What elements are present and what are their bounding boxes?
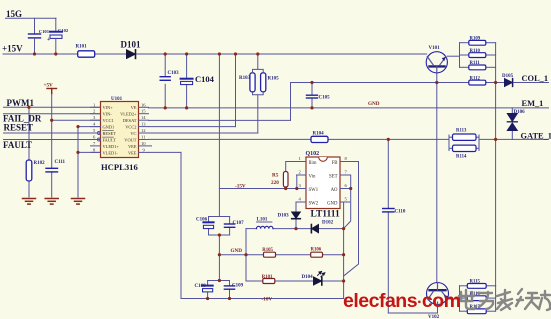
ground symbol at GND1 bracket [72,199,85,205]
wire D103 cathode to L101 run [295,220,297,229]
diode D101 [121,40,141,59]
capacitor C106 electrolytic [196,218,214,229]
U101 pin names right [120,105,137,155]
U101 pin stubs right [139,107,152,152]
wire VLED1- pin8 stub to ground bracket [78,151,101,153]
resistor R107 [262,275,275,284]
svg-text:12: 12 [141,128,146,133]
svg-text:RESET: RESET [4,123,34,133]
wire R102 bottom to ground [28,181,30,197]
wire +5V vertical feed and C111 top [51,93,53,168]
capacitor C101 [29,18,50,54]
diode D105 [502,74,514,86]
wire vertical x246 linking switch node / GND / R107 runs [245,229,247,281]
svg-text:GND: GND [231,248,243,254]
U101 pin numbers right 16-9 [141,102,146,152]
svg-text:DESAT: DESAT [123,118,137,123]
wire LT1111 pin6 AO [340,188,351,190]
svg-text:R106: R106 [311,248,322,253]
svg-text:R112: R112 [470,76,481,81]
wire R111 stubs [460,66,469,68]
wire +15V rail middle segment [95,53,127,55]
svg-text:R102: R102 [34,161,46,166]
IC U102 LT1111 body [306,151,341,220]
capacitor C102 electrolytic [47,18,69,54]
wire R115-R117 left bracket [459,286,461,311]
svg-text:D105: D105 [502,74,514,79]
capacitor C108 electrolytic [195,284,213,292]
wire C108/C109 top bridge [208,280,230,282]
wire D106 top leg [511,108,513,114]
resistor R5 vertical [271,172,288,188]
svg-text:VCC2: VCC2 [125,125,136,130]
resistor R112 [469,76,486,85]
wire C111 bottom to ground [51,172,53,197]
svg-text:R114: R114 [456,155,467,160]
svg-text:VLED1-: VLED1- [103,150,119,155]
svg-text:HCPL316: HCPL316 [101,162,138,172]
svg-text:C108: C108 [195,284,207,289]
resistor R113 [453,129,477,141]
wire GND net run y254.7 with R105 R106 [219,254,263,256]
diode D102 [311,221,333,233]
svg-text:VLED1+: VLED1+ [103,144,120,149]
svg-text:VC: VC [130,131,136,136]
wire R107/D104 run y281 [246,280,263,282]
wire R113/R114 left bracket [448,135,450,151]
resistor R114 [453,145,477,159]
wire +5V to pin3 VCC1 [52,119,101,121]
svg-text:13: 13 [141,122,146,127]
resistor R103 vertical [239,73,255,92]
capacitor C109 [224,284,243,290]
wire gate run R113/R114 to GATE_1 [479,138,549,140]
wire gate run R104 to R113/R114 [328,138,449,140]
wire R113 stubs [449,136,453,138]
wire LT1111 pin2 down to -15V run [297,175,306,189]
svg-text:C110: C110 [395,210,406,215]
svg-text:VEE: VEE [128,144,137,149]
wire R110 stubs [460,54,469,56]
op-amp U101 HCPL316 gate driver body [101,97,139,172]
svg-text:SET: SET [329,175,338,180]
wire VEE pin9 horizontal [149,151,182,153]
svg-text:EM_1: EM_1 [522,99,544,108]
svg-text:FB: FB [332,161,338,166]
svg-text:R101: R101 [76,45,88,50]
wire C106 legs [208,217,210,222]
wire LT1111 pin8 FB descent [305,156,307,158]
wire x219 tap C106 bridge to C108 bridge [218,235,220,281]
svg-text:VE: VE [131,105,137,110]
svg-text:C101: C101 [39,29,50,34]
U101 pin names left [103,105,120,155]
svg-text:-10V: -10V [262,297,273,303]
svg-text:Q102: Q102 [306,151,320,157]
svg-text:C107: C107 [233,221,245,226]
LED D104 [302,272,325,286]
wire bottom link to V102 [388,305,437,313]
U102 pin stubs left [297,162,307,203]
wire LT1111 pin4 to D103 anode [296,202,306,212]
resistor R115 [467,280,486,289]
wire LT1111 pin7 SET to AO node [340,175,351,189]
svg-text:+15V: +15V [2,44,23,54]
svg-text:COL_1: COL_1 [522,74,549,83]
power +5V symbol [44,83,57,94]
wire C105 legs x312 [311,83,313,95]
svg-text:VLED2+: VLED2+ [120,112,137,117]
wire right bracket x495.6 from R109 down to R115 bank [495,43,497,286]
wire C109 legs [229,281,231,286]
wire R114 stubs [449,147,453,149]
wire V101 collector chain down to V102 [436,73,438,282]
wire R115-R117 right bracket [495,286,497,311]
svg-text:Ilim: Ilim [309,161,317,166]
resistor R111 [469,61,486,70]
wire +15V rail right segment to V101 base [137,53,427,55]
watermark chinese characters [459,289,550,310]
wire R116 stubs [460,297,468,299]
resistor R116 [467,292,486,301]
svg-text:VEE: VEE [128,150,137,155]
capacitor C111 [46,160,66,172]
wire V101 emitter to resistor bank bracket [447,55,459,57]
svg-text:AO: AO [331,188,338,193]
resistor R110 [469,49,486,58]
wire PWM1 junction down to R102 [28,107,30,160]
capacitor C110 [383,209,406,215]
wire switch-node run L101/D102 y228.6 [246,228,257,230]
svg-text:FAULT: FAULT [3,140,32,150]
wire R113/R114 right bracket [478,135,480,151]
wire R115 stubs [460,285,468,287]
wire LT1111 pin1 to R5 top [286,162,306,172]
capacitor C107 [225,221,245,227]
wire FAIL_DR to pin2 [4,113,101,115]
resistor R101 [76,45,95,58]
wire DESAT pin14 horizontal [149,119,291,121]
svg-text:R101: R101 [262,275,273,280]
resistor R109 [469,37,486,46]
svg-text:V102: V102 [428,315,440,319]
diode D106 bidirectional TVS [507,110,525,131]
svg-text:Vin: Vin [309,175,317,180]
svg-text:R105: R105 [262,248,273,253]
U102 pin stubs right [340,162,350,203]
svg-text:C111: C111 [55,160,66,165]
wire C106/C107 top bridge [209,216,230,218]
svg-text:C104: C104 [195,74,215,84]
wire C110 bottom leg down [387,212,389,313]
svg-text:R111: R111 [470,61,481,66]
svg-text:V101: V101 [429,46,441,51]
wire SET/AO descent diagonal to switch node [344,189,351,229]
svg-text:R115: R115 [470,280,481,285]
svg-text:VIN+: VIN+ [103,105,114,110]
resistor R117 [467,305,486,314]
svg-text:-15V: -15V [235,184,246,190]
svg-text:R103: R103 [239,76,251,81]
capacitor C105 [307,95,331,100]
diode D103 [278,212,301,219]
U102 pin numbers [299,156,348,202]
svg-text:D101: D101 [121,40,141,50]
svg-text:FAULT: FAULT [103,137,117,142]
wire DESAT vertical riser x290.5 [290,83,292,121]
wire R5 bottom to -15V run [285,187,287,189]
wire DESAT top run to R112 [291,82,470,84]
wire -15V run from x219 vertical to LT1111 pin3 [219,188,306,190]
U102 pin names [309,161,319,207]
ground symbol at R102 [23,199,36,205]
svg-text:220: 220 [271,180,279,186]
wire +15V rail left segment [3,53,78,55]
wire RESET to pin5 [4,132,101,134]
svg-text:D104: D104 [302,275,314,280]
wire tap from rail to R103/R105 pair top [257,54,259,69]
U101 RESET FAULT overlines [103,130,114,132]
wire D105 cathode to COL_1 [514,82,549,84]
svg-text:14: 14 [141,115,146,120]
wire VCC2 vertical x235.5 from rail to pin13 [235,54,237,127]
wire -10V rail [181,298,344,300]
svg-text:C106: C106 [196,218,208,223]
wire R109 stubs [460,42,469,44]
svg-text:SW2: SW2 [309,202,319,207]
wire VEE vertical x181 down to -10V rail [180,152,182,298]
svg-text:GND: GND [327,202,338,207]
U101 pin stubs left [91,107,101,152]
wire VCC2 pin13 horizontal [149,126,236,128]
svg-text:GND: GND [368,101,380,107]
svg-text:C105: C105 [319,96,331,101]
svg-text:15: 15 [141,109,146,114]
capacitor C104 electrolytic [181,74,215,85]
svg-text:D103: D103 [278,214,290,219]
node 15G bus wire [6,17,57,19]
transistor V101 [426,46,447,73]
svg-text:11: 11 [141,135,146,140]
resistor R105 (bottom) [262,248,275,257]
wire VE/EM rail from pin16 to EM_1 [149,107,549,109]
wire GND1 pin4 stub to ground bracket [78,126,101,128]
wire ground bracket vertical x78 [77,127,79,197]
svg-text:R110: R110 [470,49,481,54]
svg-text:GATE_1: GATE_1 [521,132,551,141]
wire VC pin12 horizontal [149,132,258,134]
svg-text:R113: R113 [456,129,467,134]
svg-text:R104: R104 [313,132,325,137]
svg-text:VCC1: VCC1 [103,118,114,123]
svg-text:U101: U101 [111,97,123,102]
resistor R106 [311,248,323,258]
svg-text:GND1: GND1 [103,125,115,130]
resistor R104 [311,132,328,143]
wire vertical drop x219 from +15V rail to C106/C107 bridge [218,54,220,217]
wire D106 bottom leg [511,131,513,140]
svg-text:VOUT: VOUT [124,137,137,142]
wire C110 top leg from gate run [387,139,389,208]
svg-text:+5V: +5V [44,83,54,89]
wire C108 legs [207,281,209,286]
svg-text:C102: C102 [58,28,69,33]
svg-text:SW1: SW1 [309,188,319,193]
svg-text:16: 16 [141,102,146,107]
wire R103/R105 pair top bracket [253,69,264,94]
wire VC riser x257.8 to resistor pair bottom [257,95,259,133]
wire C103 legs x165.2 [164,54,166,76]
resistor R102 [26,160,45,181]
capacitor C103 [160,71,179,80]
svg-text:C109: C109 [232,284,244,289]
wire R117 stubs [460,310,468,312]
svg-text:RESET: RESET [103,131,117,136]
wire PWM1 to pin1 [4,106,101,108]
wire R103/R105 pair bottom bracket [253,92,264,95]
wire FAULT to pin6 [4,139,101,141]
svg-text:10: 10 [141,141,146,146]
svg-text:D102: D102 [322,221,334,226]
U101 pin numbers left 1-8 [93,102,96,152]
wire LT1111 pin5 GND descent x343.6 to -10V rail [340,202,344,299]
wire VOUT pin11 to R104 [149,138,312,140]
wire R112 right stub [486,82,496,84]
wire R112 to D105 anode [486,82,505,84]
svg-text:+: + [47,37,51,43]
svg-text:15G: 15G [6,9,22,19]
wire C107 legs [229,217,231,224]
svg-text:LT1111: LT1111 [311,210,340,220]
wire C104 legs x186.6 [186,54,188,78]
wire C106/C107 bottom bridge [209,234,230,236]
ground symbol at C111 [45,199,58,205]
svg-text:R105: R105 [268,77,280,82]
svg-text:R109: R109 [470,37,481,42]
svg-text:elecfans·com: elecfans·com [343,290,461,312]
resistor R105 vertical (top pair) [261,73,280,92]
wire R109-R111 left bracket x459.5 [459,43,461,68]
svg-text:VIN-: VIN- [103,112,113,117]
svg-text:C103: C103 [168,71,180,76]
svg-text:R5: R5 [272,173,279,179]
inductor L101 [257,218,273,229]
wire V102 emitter to R115 bank bracket [449,298,460,300]
U101 pin5 pin6 inversion bubbles [97,132,100,135]
svg-text:D106: D106 [514,110,526,115]
transistor V102 [427,283,449,319]
